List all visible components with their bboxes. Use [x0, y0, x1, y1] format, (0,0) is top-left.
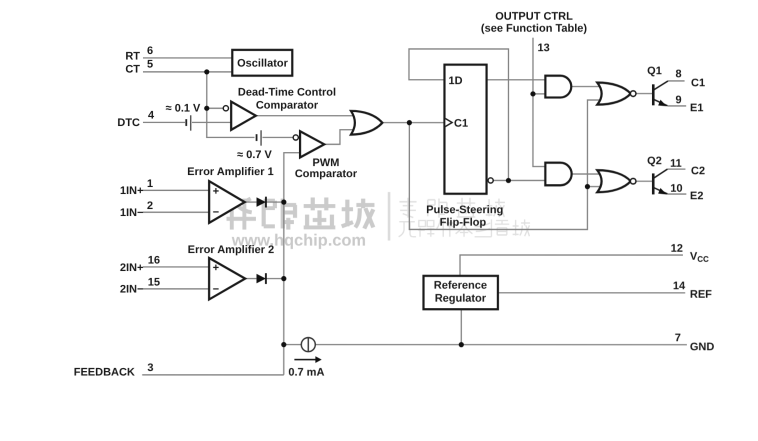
- current source 0.7 mA: [301, 338, 315, 352]
- svg-text:9: 9: [675, 94, 681, 106]
- wire diode D1 to common node: [266, 201, 284, 203]
- svg-text:−: −: [213, 207, 219, 219]
- wire common node to current source: [284, 344, 302, 346]
- svg-text:11: 11: [670, 158, 682, 170]
- wire flip-flop Qbar loop to 1D input: [409, 49, 509, 181]
- svg-text:10: 10: [670, 183, 682, 195]
- svg-text:12: 12: [671, 243, 683, 255]
- svg-text:2: 2: [147, 200, 153, 212]
- wire flip-flop Q output to AND1 upper input: [487, 79, 546, 81]
- wire Q2 emitter stub to pin 10 E2: [667, 193, 686, 195]
- op-amp error amplifier 1: [209, 181, 245, 223]
- wire Q1 emitter stub to pin 9 E1: [667, 105, 686, 107]
- svg-text:−: −: [213, 283, 219, 295]
- svg-text:RT: RT: [125, 50, 140, 62]
- wire error amp common line to PWM comparator lower input: [284, 153, 300, 375]
- flip-flop Qbar bubble: [488, 178, 493, 183]
- wire REF from reference regulator to pin 14: [498, 292, 685, 294]
- text layer: [74, 11, 715, 379]
- svg-text:4: 4: [148, 110, 155, 122]
- gate OR1 (dead-time/PWM combiner): [351, 111, 382, 135]
- gate NOR2: [597, 170, 630, 192]
- svg-text:Q2: Q2: [647, 155, 662, 167]
- gate NOR1: [597, 83, 630, 105]
- svg-text:14: 14: [673, 280, 686, 292]
- components layer: [186, 50, 668, 363]
- svg-text:5: 5: [147, 59, 153, 71]
- wire AND1 output to NOR1: [571, 86, 599, 88]
- node Qbar junction dot: [506, 178, 511, 183]
- flip-flop U1 pulse-steering box: [444, 65, 486, 194]
- svg-text:C2: C2: [691, 165, 705, 177]
- node error amp 1 output junction dot: [281, 199, 286, 204]
- svg-text:Reference: Reference: [434, 280, 487, 292]
- wire Q2 collector stub to pin 11 C2: [667, 168, 685, 170]
- wire CT node down to DTC comparator input and 0.7V battery row: [207, 72, 255, 138]
- wire CT pin 5 to oscillator: [143, 71, 232, 73]
- wire 1IN- pin 2 to error amp 1: [143, 211, 209, 213]
- node DTC comparator input junction dot: [204, 106, 209, 111]
- wire flip-flop Qbar bubble to AND2 lower input: [493, 179, 545, 181]
- wire DTC pin 4 to 0.1V battery: [143, 121, 185, 123]
- svg-text:Error Amplifier 1: Error Amplifier 1: [187, 166, 273, 178]
- watermark right block: [388, 192, 530, 241]
- svg-text:≈ 0.1 V: ≈ 0.1 V: [166, 102, 201, 114]
- watermark left block: [227, 197, 375, 249]
- svg-text:FEEDBACK: FEEDBACK: [74, 367, 135, 379]
- op-amp PWM comparator: [293, 135, 298, 140]
- oscillator box: [232, 50, 292, 76]
- wire current source to GND pin 7: [315, 344, 687, 346]
- svg-text:7: 7: [675, 332, 681, 344]
- svg-text:Comparator: Comparator: [256, 99, 319, 111]
- gate AND2: [545, 163, 571, 186]
- svg-text:15: 15: [148, 277, 160, 289]
- wire branch OUTPUT CTRL to AND1 lower input: [533, 93, 545, 95]
- wire 0.7V battery to PWM comparator bubble input: [262, 136, 293, 138]
- svg-text:6: 6: [147, 45, 153, 57]
- svg-text:REF: REF: [690, 289, 712, 301]
- wire OR gate output to flip-flop clock C1: [382, 122, 444, 124]
- wire AND2 output to NOR2: [571, 173, 599, 175]
- transistor Q2: [653, 169, 667, 194]
- wire 0.1V battery to DTC comparator lower input: [192, 121, 231, 123]
- svg-text:16: 16: [148, 255, 160, 267]
- svg-text:E2: E2: [690, 190, 703, 202]
- wire VCC net from reference regulator to pin 12: [460, 255, 683, 276]
- diode D2: [257, 274, 266, 284]
- svg-text:C1: C1: [691, 77, 705, 89]
- svg-text:3: 3: [147, 362, 153, 374]
- wire FEEDBACK pin 3: [142, 374, 284, 376]
- wire PWM comparator output to OR gate lower input: [324, 130, 355, 145]
- svg-text:DTC: DTC: [117, 117, 140, 129]
- battery 0.1 V (DTC): [186, 115, 191, 130]
- svg-text:1IN−: 1IN−: [120, 207, 144, 219]
- wire C1 node down-across-up to NOR gate lower inputs: [409, 100, 599, 230]
- svg-text:+: +: [213, 262, 219, 274]
- wire diode D2 to common node: [266, 278, 284, 280]
- svg-text:Comparator: Comparator: [295, 168, 358, 180]
- svg-text:Q1: Q1: [647, 65, 662, 77]
- svg-text:C1: C1: [454, 118, 468, 130]
- svg-text:1: 1: [147, 178, 153, 190]
- wire branch to NOR2 lower input: [587, 186, 601, 188]
- svg-text:Error Amplifier 2: Error Amplifier 2: [188, 244, 274, 256]
- wire 1IN+ pin 1 to error amp 1: [143, 189, 209, 191]
- svg-text:OUTPUT CTRL: OUTPUT CTRL: [495, 11, 573, 23]
- node OR output junction dot: [407, 120, 412, 125]
- wire DTC comparator output to OR gate upper input: [256, 115, 355, 117]
- svg-text:Pulse-Steering: Pulse-Steering: [426, 204, 503, 216]
- svg-text:2IN−: 2IN−: [120, 284, 144, 296]
- svg-text:Oscillator: Oscillator: [237, 58, 288, 70]
- svg-text:(see Function Table): (see Function Table): [481, 23, 587, 35]
- svg-text:1IN+: 1IN+: [120, 185, 144, 197]
- svg-text:1D: 1D: [448, 75, 462, 87]
- node NOR2 input junction dot: [585, 184, 590, 189]
- wire NOR1 output to Q1 base: [636, 93, 652, 95]
- wire Q1 collector stub to pin 8 C1: [668, 80, 685, 82]
- node GND junction dot: [459, 342, 464, 347]
- svg-text:GND: GND: [690, 341, 715, 353]
- svg-text:0.7 mA: 0.7 mA: [288, 367, 324, 379]
- wire OUTPUT CTRL pin 13 vertical: [533, 38, 545, 167]
- svg-text:13: 13: [537, 42, 549, 54]
- svg-text:E1: E1: [690, 102, 703, 114]
- svg-text:≈ 0.7 V: ≈ 0.7 V: [237, 149, 272, 161]
- wire reference regulator to GND node: [460, 309, 462, 344]
- node CT junction dot: [204, 69, 209, 74]
- svg-text:+: +: [213, 186, 219, 198]
- svg-text:Regulator: Regulator: [435, 293, 487, 305]
- wire error amp 1 output to diode D1: [245, 201, 257, 203]
- wires layer: [142, 38, 687, 375]
- op-amp error amplifier 2: [209, 258, 245, 300]
- svg-text:CT: CT: [125, 64, 140, 76]
- battery 0.7 V (PWM): [257, 130, 262, 145]
- wire branch to DTC comparator bubble input: [207, 107, 223, 109]
- svg-text:Dead-Time Control: Dead-Time Control: [238, 86, 336, 98]
- svg-text:2IN+: 2IN+: [120, 262, 144, 274]
- op-amp dead-time control comparator: [223, 106, 228, 111]
- svg-text:Flip-Flop: Flip-Flop: [440, 216, 487, 228]
- wire error amp 2 output to diode D2: [245, 278, 256, 280]
- node feedback junction dot: [281, 342, 286, 347]
- wire 2IN+ pin 16 to error amp 2: [143, 266, 209, 268]
- node OUTPUT CTRL junction dot: [530, 91, 535, 96]
- gate AND1: [545, 76, 571, 98]
- diode D1: [257, 197, 266, 207]
- wire NOR2 output to Q2 base: [636, 180, 652, 182]
- reference regulator box: [423, 276, 497, 309]
- wire 2IN- pin 15 to error amp 2: [143, 288, 209, 290]
- wire RT pin 6 to oscillator: [143, 57, 232, 59]
- transistor Q1: [653, 81, 668, 106]
- svg-text:8: 8: [675, 68, 681, 80]
- node error amp 2 output junction dot: [281, 276, 286, 281]
- current direction arrow: [294, 359, 316, 361]
- flip-flop clock triangle pin C1: [445, 119, 452, 127]
